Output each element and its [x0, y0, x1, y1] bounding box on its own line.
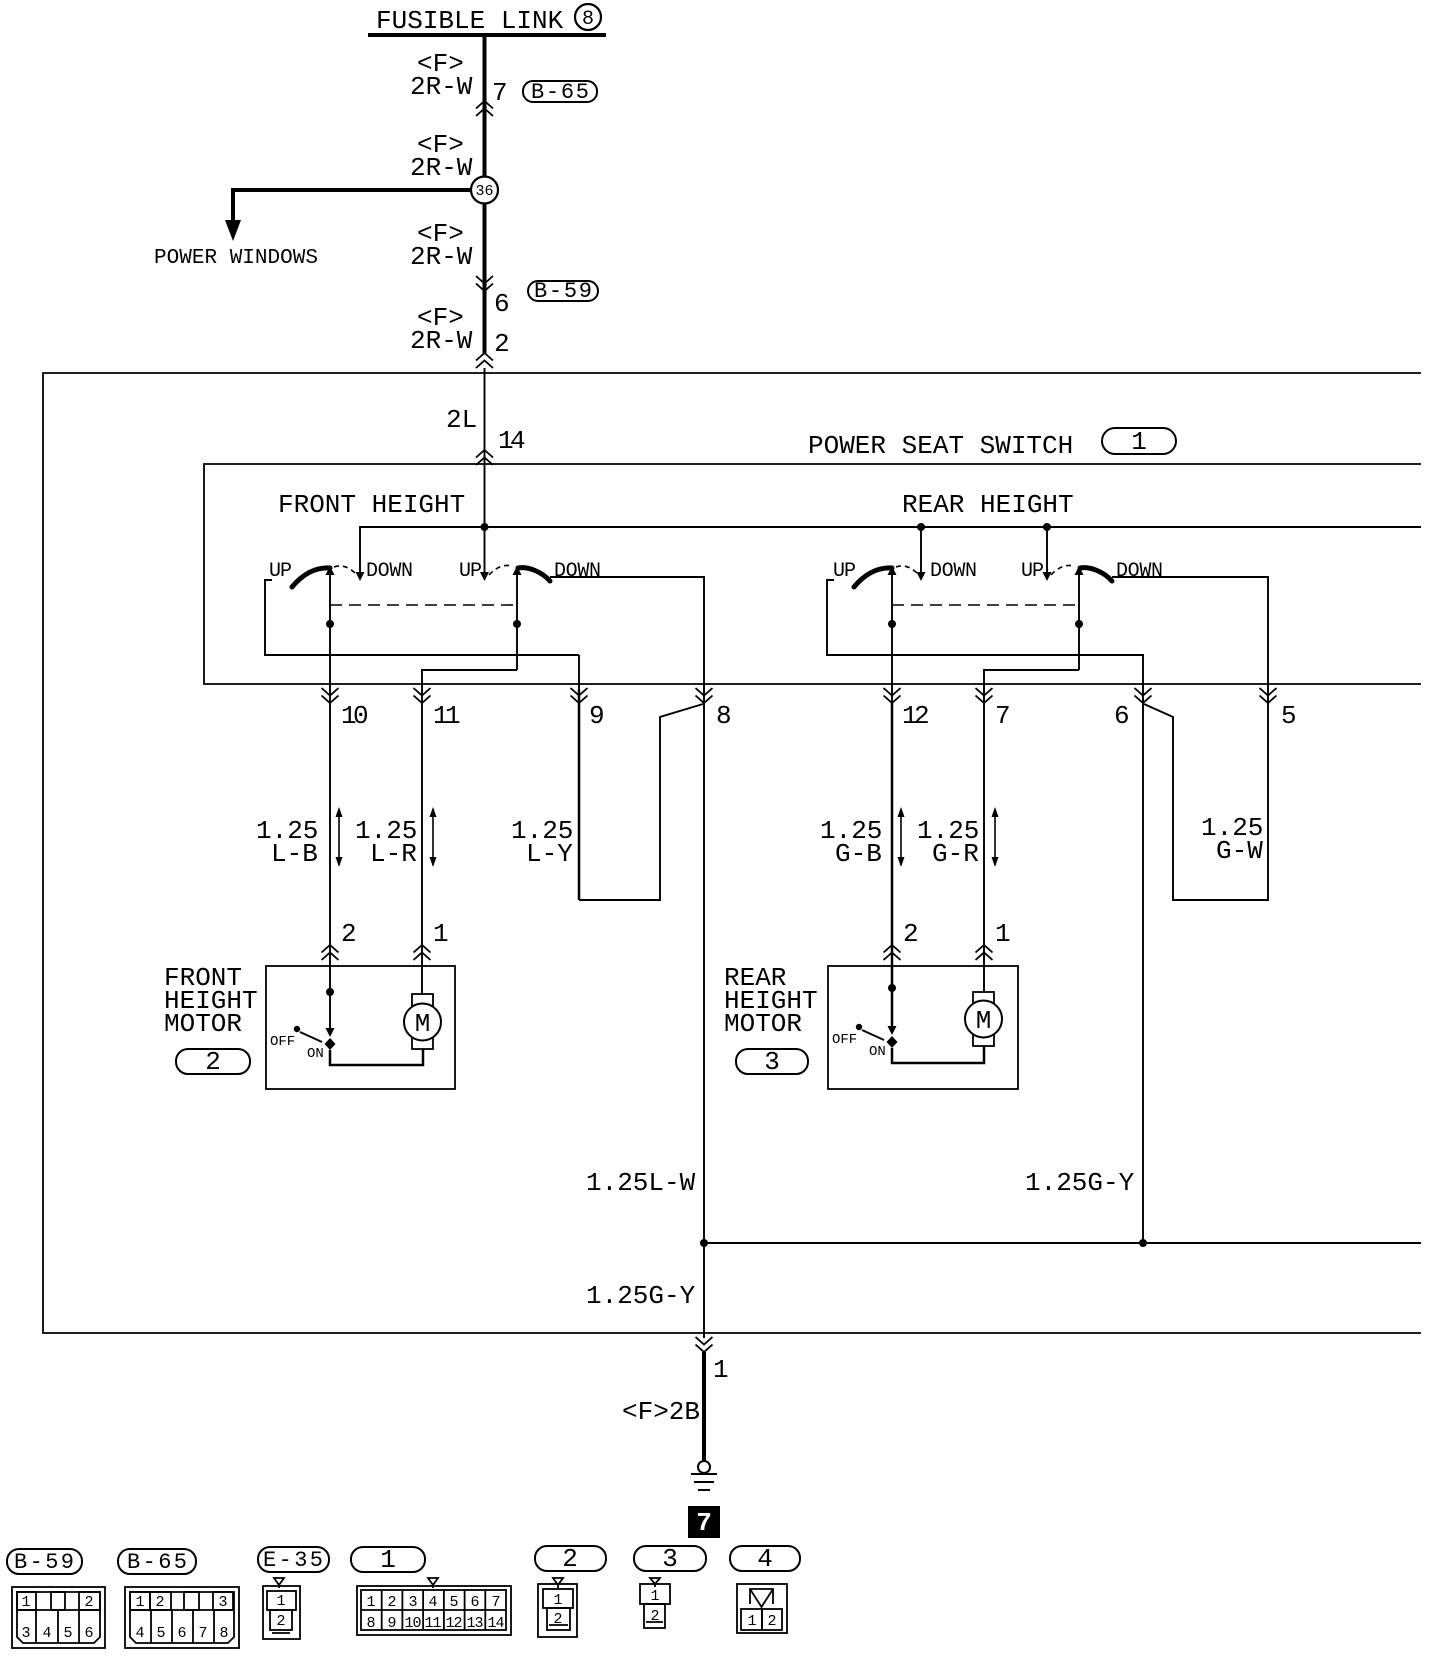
switch S3 pivot arrow [888, 566, 897, 575]
junction dot on bus (feed) [481, 523, 489, 531]
rear motor switch contact arrowhead [888, 1026, 897, 1035]
svg-text:2: 2 [914, 701, 930, 731]
svg-text:3: 3 [764, 1047, 780, 1077]
pin 11 chevron [414, 688, 461, 731]
svg-text:1: 1 [445, 701, 461, 731]
fusible link 8 label [376, 4, 601, 36]
svg-text:DOWN: DOWN [366, 560, 413, 583]
wire 2R-W from fusible link (thick feed) [483, 35, 487, 353]
rear motor switch diamond [887, 1036, 898, 1048]
node 36 [471, 177, 498, 204]
switch S3 pivot wire upper [891, 575, 893, 703]
svg-text:7: 7 [696, 1508, 712, 1538]
svg-text:1: 1 [995, 919, 1011, 949]
svg-text:1: 1 [276, 1593, 285, 1610]
pin 5 chevron [1260, 688, 1297, 731]
svg-text:10: 10 [405, 1615, 422, 1632]
svg-text:11: 11 [425, 1615, 442, 1632]
both-ways arrow G-R [992, 807, 999, 867]
svg-text:5: 5 [1281, 701, 1297, 731]
svg-text:7: 7 [198, 1625, 207, 1642]
switch S4 down-contact wire to pin 5 [1112, 577, 1268, 703]
connector E-35 pinout [258, 1547, 329, 1639]
svg-text:1: 1 [553, 1592, 562, 1609]
svg-text:7: 7 [995, 701, 1011, 731]
connector 3 pinout [634, 1544, 706, 1628]
power seat switch box [204, 464, 1421, 684]
svg-text:2: 2 [205, 1047, 221, 1077]
svg-text:2: 2 [155, 1594, 164, 1611]
connector 2 pinout [535, 1544, 606, 1637]
switch S1 down-contact arrowhead [356, 572, 365, 581]
svg-text:1: 1 [433, 919, 449, 949]
svg-text:1: 1 [380, 1545, 396, 1575]
svg-text:ON: ON [307, 1046, 324, 1062]
svg-text:4: 4 [428, 1594, 437, 1611]
svg-text:1: 1 [713, 1355, 729, 1385]
svg-text:M: M [976, 1006, 992, 1036]
switch S3 down-contact arrowhead [917, 572, 926, 581]
svg-text:12: 12 [446, 1615, 463, 1632]
svg-text:6: 6 [494, 289, 510, 319]
wire 1.25 L-Y loop pin9 to pin8 [579, 690, 703, 900]
rear height motor box [828, 966, 1018, 1089]
both-ways arrow G-B [898, 807, 905, 867]
connector B-65 pinout [118, 1549, 239, 1648]
svg-text:FRONT HEIGHT: FRONT HEIGHT [278, 490, 465, 520]
svg-text:7: 7 [491, 1594, 500, 1611]
rear motor M circle [965, 1001, 1002, 1038]
svg-text:3: 3 [218, 1594, 227, 1611]
ground reference box 7 [688, 1506, 720, 1538]
switch S2 pivot wire [516, 575, 518, 670]
svg-text:8: 8 [219, 1625, 228, 1642]
rear motor OFF contact dot [856, 1024, 862, 1030]
svg-text:5: 5 [449, 1594, 458, 1611]
svg-text:OFF: OFF [270, 1034, 295, 1050]
svg-text:1: 1 [747, 1613, 756, 1630]
front motor M circle [404, 1004, 441, 1041]
FRONT HEIGHT MOTOR title [164, 963, 258, 1039]
switch S1 pivot arrow [326, 566, 335, 575]
pin 6 chevron [1114, 688, 1152, 731]
label (F) 2R-W #1 [410, 49, 473, 102]
svg-text:1: 1 [21, 1594, 30, 1611]
svg-text:8: 8 [716, 701, 732, 731]
svg-text:ON: ON [869, 1044, 886, 1060]
rear motor bottom wire [892, 1046, 984, 1063]
svg-text:1: 1 [366, 1594, 375, 1611]
ground bus wire 1.25G-Y [704, 1242, 1421, 1244]
switch S3 up-contact wire to pin 6 [827, 580, 1143, 703]
svg-text:1: 1 [650, 1588, 659, 1605]
switch S1 pivot wire to pin 10 [329, 575, 331, 1029]
junction dot on bus (rear down) [917, 523, 925, 531]
svg-text:7: 7 [492, 78, 508, 108]
svg-text:8: 8 [366, 1615, 375, 1632]
wire to ground connector pin 1 [703, 1243, 705, 1338]
pin 10 chevron [322, 688, 369, 731]
wire 1.25 G-W loop pin5 to pin6 [1144, 703, 1268, 900]
switch S3 blade [854, 568, 892, 587]
front motor switch diamond [325, 1038, 336, 1050]
both-ways arrow L-B [336, 807, 343, 867]
front motor armature rect [412, 994, 433, 1049]
svg-text:2: 2 [494, 329, 510, 359]
switch S2 dashed throw [489, 565, 512, 575]
svg-text:1.25G-Y: 1.25G-Y [1025, 1168, 1135, 1198]
front motor pin 2 chevron [322, 919, 357, 960]
svg-text:2: 2 [553, 1611, 562, 1628]
svg-text:UP: UP [1021, 560, 1044, 583]
svg-text:2: 2 [84, 1594, 93, 1611]
svg-text:DOWN: DOWN [1116, 560, 1163, 583]
wire 2L into switch [484, 368, 486, 572]
wire 1.25 G-R label [917, 816, 979, 869]
svg-text:M: M [415, 1009, 431, 1039]
svg-text:2: 2 [903, 919, 919, 949]
front motor switch lever [300, 1032, 322, 1042]
wire pivot S2 to pin 11 [422, 670, 517, 994]
svg-text:3: 3 [662, 1544, 678, 1574]
svg-text:UP: UP [269, 560, 292, 583]
switch S3 pivot dot [888, 620, 896, 628]
svg-text:4: 4 [510, 426, 526, 456]
front motor pin 1 chevron [414, 919, 449, 960]
REAR HEIGHT MOTOR title [724, 963, 818, 1039]
switch S4 feed wire (up contact) [1046, 527, 1048, 572]
wire pin 8 down to junction [703, 703, 705, 1243]
svg-text:5: 5 [63, 1625, 72, 1642]
wire 1.25 G-W label [1201, 813, 1263, 866]
svg-text:L-Y: L-Y [526, 839, 573, 869]
svg-text:4: 4 [42, 1625, 51, 1642]
svg-text:1.25L-W: 1.25L-W [586, 1168, 696, 1198]
svg-text:REAR HEIGHT: REAR HEIGHT [902, 490, 1074, 520]
switch S4 blade [1080, 568, 1112, 581]
component label 1 (stadium) [1102, 427, 1176, 457]
switch S4 pivot wire [1078, 575, 1080, 670]
connector 1 pinout (14 pin) [351, 1545, 511, 1635]
svg-text:G-R: G-R [932, 839, 979, 869]
connector 4 pinout [730, 1544, 800, 1633]
switch S4 up-contact arrowhead [1043, 572, 1052, 581]
switch S3-S4 mechanical link (dashed) [892, 604, 1079, 606]
connector label B-59 [528, 279, 598, 304]
switch S2 pivot arrow [513, 566, 522, 575]
svg-text:6: 6 [177, 1625, 186, 1642]
switch S1-S2 mechanical link (dashed) [330, 604, 517, 606]
wire 1.25 L-B (pin10 to motor) already drawn; label [256, 816, 318, 869]
svg-text:2R-W: 2R-W [410, 242, 473, 272]
svg-text:2R-W: 2R-W [410, 153, 473, 183]
rear motor pin 2 chevron [884, 919, 919, 960]
front motor OFF contact dot [294, 1026, 300, 1032]
switch S4 pivot arrow [1075, 566, 1084, 575]
svg-text:4: 4 [757, 1544, 773, 1574]
pin 8 chevron [696, 688, 732, 731]
svg-text:2: 2 [650, 1608, 659, 1625]
switch S2 pivot dot [513, 620, 521, 628]
switch S2 down-contact wire to pin 8 [550, 577, 704, 703]
switch S1 blade [292, 568, 330, 587]
switch S2 up-contact arrowhead [480, 572, 489, 581]
svg-text:L-B: L-B [271, 839, 318, 869]
svg-text:UP: UP [459, 560, 482, 583]
rear motor pin 1 chevron [976, 919, 1011, 960]
svg-text:8: 8 [582, 8, 594, 31]
switch S4 pivot dot [1075, 620, 1083, 628]
svg-text:2: 2 [562, 1544, 578, 1574]
junction block outer box [43, 373, 1421, 1333]
svg-text:6: 6 [1114, 701, 1130, 731]
both-ways arrow L-R [430, 807, 437, 867]
wire pin 6 down to junction [1142, 703, 1144, 1243]
wire pin 12 to motor [891, 703, 894, 1027]
svg-text:2: 2 [341, 919, 357, 949]
switch S3 feed wire (down contact) [920, 527, 922, 572]
svg-text:OFF: OFF [832, 1032, 857, 1048]
svg-text:2: 2 [276, 1613, 285, 1630]
front motor switch contact arrowhead [326, 1028, 335, 1037]
svg-text:2R-W: 2R-W [410, 326, 473, 356]
rear motor junction dot [888, 984, 896, 992]
svg-text:3: 3 [408, 1594, 417, 1611]
svg-text:14: 14 [488, 1615, 505, 1632]
label (F) 2R-W #3 [410, 219, 473, 272]
switch S4 dashed throw [1051, 565, 1074, 575]
svg-text:36: 36 [476, 183, 494, 200]
wire pivot S4 to pin 7 [984, 670, 1079, 992]
svg-text:1: 1 [135, 1594, 144, 1611]
rear motor armature rect [973, 992, 994, 1046]
pin 12 chevron [884, 688, 930, 731]
internal bus wire [360, 527, 1421, 572]
rear motor switch lever [862, 1030, 884, 1040]
switch S1 pivot dot [326, 620, 334, 628]
svg-text:POWER WINDOWS: POWER WINDOWS [154, 247, 318, 270]
junction dot on bus (rear up) [1043, 523, 1051, 531]
svg-text:B-59: B-59 [534, 279, 592, 304]
switch S3 dashed throw [896, 566, 918, 574]
component label 2 (stadium) [176, 1047, 250, 1077]
svg-text:0: 0 [353, 701, 369, 731]
switch S1 up-contact wire to pin 9 [265, 580, 579, 655]
switch S1 dashed throw [334, 566, 356, 574]
svg-text:DOWN: DOWN [930, 560, 977, 583]
svg-text:2: 2 [767, 1613, 776, 1630]
svg-text:L-R: L-R [370, 839, 417, 869]
component label 3 (stadium) [736, 1047, 808, 1077]
front motor junction dot [326, 988, 334, 996]
power seat switch pin 14 [476, 426, 526, 465]
svg-text:DOWN: DOWN [554, 560, 601, 583]
ground symbol [691, 1461, 717, 1490]
pin 9 chevron [571, 688, 605, 731]
svg-text:<F>2B: <F>2B [622, 1397, 700, 1427]
junction dot right [1139, 1239, 1147, 1247]
wire 1.25 L-Y label [511, 816, 573, 869]
svg-text:FUSIBLE LINK: FUSIBLE LINK [376, 6, 564, 36]
connector label B-65 [523, 80, 597, 105]
label (F) 2R-W #2 [410, 130, 473, 183]
svg-text:3: 3 [21, 1625, 30, 1642]
svg-text:2R-W: 2R-W [410, 72, 473, 102]
svg-text:MOTOR: MOTOR [724, 1009, 802, 1039]
connector pin 1 chevron [696, 1337, 729, 1385]
front motor bottom wire [330, 1049, 423, 1065]
svg-text:B-65: B-65 [531, 80, 589, 105]
connector pin 6 (B-59) [476, 276, 510, 319]
wire 1.25 G-B label [820, 816, 882, 869]
svg-text:6: 6 [470, 1594, 479, 1611]
wire 1.25 L-R label [355, 816, 417, 869]
wire (F)2B thick ground lead [702, 1352, 706, 1461]
junction dot left [700, 1239, 708, 1247]
connector pin 2 [476, 329, 510, 368]
wire pin 9 drop [578, 655, 580, 690]
svg-text:POWER SEAT SWITCH: POWER SEAT SWITCH [808, 431, 1073, 461]
svg-text:2L: 2L [446, 405, 477, 435]
svg-text:1.25G-Y: 1.25G-Y [586, 1281, 696, 1311]
svg-text:9: 9 [387, 1615, 396, 1632]
label (F) 2R-W #4 [410, 303, 473, 356]
connector B-59 pinout [7, 1549, 105, 1648]
connector pin 7 (B-65) [476, 78, 508, 116]
svg-text:MOTOR: MOTOR [164, 1009, 242, 1039]
svg-text:1: 1 [1131, 427, 1147, 457]
svg-text:9: 9 [589, 701, 605, 731]
svg-text:G-B: G-B [835, 839, 882, 869]
pin 7 chevron [976, 688, 1011, 731]
svg-text:2: 2 [387, 1594, 396, 1611]
front height motor box [266, 966, 455, 1089]
svg-text:13: 13 [467, 1615, 484, 1632]
switch S2 blade [518, 568, 550, 581]
svg-text:6: 6 [84, 1625, 93, 1642]
svg-text:4: 4 [135, 1625, 144, 1642]
wire to power windows [225, 188, 474, 241]
svg-text:5: 5 [156, 1625, 165, 1642]
fusible link bus bar [368, 33, 606, 37]
svg-text:UP: UP [833, 560, 856, 583]
svg-text:G-W: G-W [1216, 836, 1263, 866]
